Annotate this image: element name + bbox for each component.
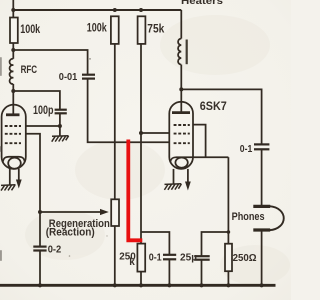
V2 grids (dashed) <box>174 125 190 143</box>
ground V2 cathode <box>164 184 181 190</box>
wire V2 plate lead <box>180 89 182 111</box>
capacitor C5 0-1 (output coupling) <box>254 144 269 149</box>
wire R5 to bus <box>227 271 229 285</box>
choke iron core bar <box>186 40 188 65</box>
node V2 plate <box>179 87 183 91</box>
wire wiper arrow line <box>40 211 101 213</box>
phones jack top contact <box>253 205 270 208</box>
heater lead V1 with arrow <box>18 169 20 181</box>
wire C6 to bus <box>201 260 203 286</box>
wire plate node to C2 <box>13 91 60 110</box>
svg-text:100k: 100k <box>20 22 40 36</box>
svg-text:250Ω: 250Ω <box>233 252 257 264</box>
inductor L1 output choke <box>178 39 181 65</box>
resistor R1 100k <box>10 18 18 44</box>
svg-text:0-2: 0-2 <box>48 245 62 256</box>
wire R3 to screen node <box>140 44 142 133</box>
tube V1 envelope <box>2 105 26 169</box>
wire V1 plate lead <box>12 91 14 115</box>
resistor R4 250k <box>137 244 145 272</box>
V2 suppressor tie <box>193 125 206 158</box>
annotation red mark <box>128 140 142 241</box>
phones earpiece arc <box>270 206 284 230</box>
wire RFC to plate node <box>12 84 14 91</box>
wire rail R2 to VR1 <box>114 44 116 199</box>
V2 anode <box>172 111 190 114</box>
wire plate feed to C1 <box>13 50 87 75</box>
wire V2 cathode down <box>227 157 229 232</box>
wire R1 to RFC <box>12 43 14 59</box>
wire screen feed to V2 <box>141 132 170 134</box>
node V2 screen <box>139 131 143 135</box>
wire V1 cathode to ground <box>9 169 11 185</box>
svg-text:0-01: 0-01 <box>59 72 78 83</box>
V1 grids (dashed) <box>5 126 21 143</box>
wire bias node to R5 <box>227 232 229 244</box>
wire C1 to V2 grid (long coupling line) <box>88 79 170 143</box>
wire grid node to ground <box>59 126 61 136</box>
resistor R3 75k <box>138 16 146 44</box>
specks <box>89 58 91 60</box>
svg-text:75k: 75k <box>147 22 164 36</box>
V2 cathode <box>171 157 229 161</box>
svg-text:25µ: 25µ <box>180 252 197 263</box>
wire bias node to C6 <box>202 232 229 256</box>
capacitor C2 100p <box>55 110 67 114</box>
wire C3 to bus <box>39 251 41 286</box>
paper edge smudges <box>0 57 2 261</box>
svg-text:100k: 100k <box>87 21 107 35</box>
ground under C2 <box>52 136 69 142</box>
wire V1 grid line <box>26 125 60 127</box>
wire choke top to rail <box>180 10 182 39</box>
phones jack bottom contact <box>253 228 270 231</box>
tube V2 envelope <box>169 102 193 169</box>
wire top supply rail <box>13 9 181 11</box>
resistor R5 250ohm <box>225 244 232 272</box>
node rail tap R2 <box>113 8 117 12</box>
wire plate node to C5 <box>181 89 261 144</box>
ground bus <box>0 284 276 287</box>
node cathode bias <box>227 230 231 234</box>
capacitor C3 0-2 <box>33 247 46 251</box>
wire C5 to phones <box>261 149 263 205</box>
capacitor C6 25u <box>194 256 210 260</box>
node supply junction <box>11 8 15 12</box>
node wiper takeoff <box>38 210 42 214</box>
wire phones to bus <box>261 230 263 286</box>
potentiometer VR1 body <box>111 199 119 226</box>
svg-text:RFC: RFC <box>21 64 38 76</box>
svg-text:Phones: Phones <box>232 211 265 223</box>
svg-text:k: k <box>129 257 135 268</box>
wire R4 to bus <box>140 272 142 286</box>
svg-text:100p: 100p <box>33 105 54 117</box>
V1 anode <box>6 113 20 116</box>
V1 cathode <box>3 157 25 162</box>
svg-text:(Reaction): (Reaction) <box>46 226 95 238</box>
bus junction nodes <box>38 283 264 287</box>
wire choke to plate node <box>180 65 182 90</box>
node detector plate feed <box>11 48 15 52</box>
wire C2 to grid node <box>59 113 61 126</box>
node rail tap R3 <box>139 8 143 12</box>
node V1 plate <box>11 89 15 93</box>
capacitor C1 0-01 <box>82 75 95 79</box>
inductor RFC <box>10 59 14 84</box>
svg-text:0-1: 0-1 <box>240 144 253 155</box>
node grid leak <box>58 124 62 128</box>
wire B+ entry (top left vertical) <box>12 0 14 18</box>
wire V1 screen to regeneration line <box>26 134 40 247</box>
wire V2 cathode to ground <box>173 169 175 184</box>
capacitor C4 0-1 <box>163 255 176 259</box>
svg-text:Heaters: Heaters <box>181 0 223 7</box>
arrowhead wiper <box>100 209 109 215</box>
resistor R2 100k <box>111 16 119 44</box>
ground V1 cathode <box>1 185 16 191</box>
wire C4 to bus <box>168 259 170 285</box>
wire screen node down <box>140 133 142 244</box>
heater lead V2 with arrow <box>187 169 189 182</box>
svg-text:6SK7: 6SK7 <box>200 99 227 113</box>
svg-text:0-1: 0-1 <box>149 252 162 263</box>
wire VR1 to bus <box>114 226 116 285</box>
wire divider to C4 <box>141 232 169 255</box>
